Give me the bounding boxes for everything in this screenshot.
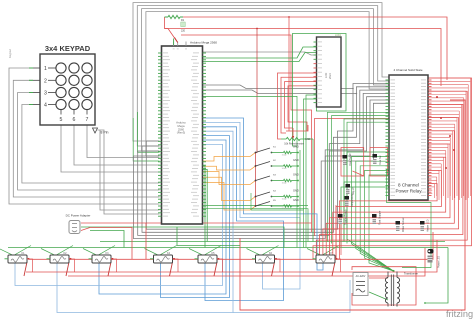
- wire orange arduino to switch S5: [203, 183, 256, 211]
- junction red R1 bus: [288, 16, 290, 18]
- wire red relay OUT stub 21: [428, 143, 448, 145]
- wire green relay pin to transformer 6: [369, 175, 394, 271]
- junction red: [453, 149, 455, 151]
- wire relay IN6 dark: [325, 100, 389, 232]
- wire red relay OUT long 1: [313, 78, 472, 259]
- svg-text:FloatingSwitch: FloatingSwitch: [344, 209, 347, 225]
- wire green relay pin to transformer 2: [351, 157, 393, 271]
- sensor float switch 2: [373, 154, 382, 165]
- wire green arduino top right: [203, 96, 298, 146]
- svg-text:fritzing: fritzing: [446, 309, 473, 319]
- wire red relay OUT stub 19: [428, 136, 450, 138]
- relay red pin label: [391, 117, 396, 120]
- transformer T1: [385, 272, 399, 307]
- wire green relay pin to transformer 5: [365, 170, 394, 271]
- junction red: [436, 96, 438, 98]
- wire red relay OUT stub 32: [428, 179, 437, 181]
- wire gray top loop 4: [146, 12, 389, 156]
- wire red into arduino top: [175, 38, 178, 43]
- svg-text:Power Relay: Power Relay: [395, 189, 422, 194]
- wire red AC to transformer: [369, 277, 388, 279]
- wire relay IN5 dark: [329, 97, 389, 230]
- svg-text:5: 5: [60, 117, 63, 123]
- wire green under switches: [251, 193, 304, 248]
- wire dark loop arduino to relay IN2: [142, 87, 389, 233]
- wire red relay OUT stub 31: [428, 176, 437, 178]
- wire gray top loop 3: [142, 9, 389, 151]
- wire green V into pump box 6: [247, 246, 279, 256]
- wire blue arduino to pump box 2: [57, 131, 233, 312]
- sensor 6: [396, 217, 405, 232]
- arduino center label: [176, 121, 186, 135]
- wire orange arduino to switch S4: [203, 177, 256, 200]
- wire red relay OUT stub 6: [428, 94, 466, 96]
- wire red relay OUT stub 16: [428, 127, 455, 129]
- svg-text:220: 220: [181, 30, 186, 33]
- wire red branch to pot frame: [288, 17, 290, 131]
- svg-text:6: 6: [73, 117, 76, 123]
- svg-text:4 Channel Solid State: 4 Channel Solid State: [393, 68, 422, 72]
- wire green relay pin to transformer 3: [356, 161, 394, 271]
- wire green V into pump box 3: [83, 246, 115, 256]
- wire keypad row 3 to arduino: [18, 93, 160, 191]
- wire red jog pump box 3: [113, 259, 117, 272]
- solenoid valve V7: [313, 252, 338, 263]
- wire red pump rail top: [29, 232, 433, 259]
- sensor 5: [372, 210, 381, 225]
- solenoid valve V3: [89, 252, 114, 263]
- wire green arduino top stub: [173, 39, 175, 46]
- wire green DC loop left: [90, 231, 124, 248]
- svg-text:8 Channel: 8 Channel: [398, 183, 419, 188]
- switches S1-S5 with pulldown resistors: [255, 145, 299, 211]
- svg-text:Arduino Mega 2560: Arduino Mega 2560: [190, 41, 217, 45]
- svg-text:GND: GND: [293, 173, 299, 177]
- wire red diag pump box 3: [108, 262, 111, 276]
- wire red jog pump box 6: [277, 259, 281, 272]
- wire red relay OUT stub 24: [428, 153, 446, 155]
- solenoid valve V4: [150, 252, 175, 263]
- solenoid valve V1: [5, 252, 30, 263]
- wire green relay mid pin 3: [344, 119, 389, 242]
- wire red comb vertical 21: [447, 144, 449, 198]
- wire green bus b: [299, 150, 301, 242]
- wire darkred switch common: [256, 29, 258, 207]
- wire red diag pump box 1: [24, 262, 27, 276]
- wire red diag pump box 2: [66, 262, 69, 276]
- wire green relay low1: [344, 182, 389, 242]
- svg-text:GND: GND: [305, 138, 311, 141]
- wire red relay OUT stub 3: [428, 84, 468, 86]
- wire green relay mid pin 2: [332, 116, 390, 244]
- wire red relay OUT stub 36: [428, 193, 432, 195]
- svg-text:1: 1: [44, 66, 47, 72]
- resistor R1: [168, 15, 180, 18]
- potentiometer RV1 10k: [286, 137, 300, 140]
- sensor drip: [346, 184, 355, 195]
- svg-text:10k Potentiometer: 10k Potentiometer: [284, 143, 304, 146]
- wire green arduino to LCD SCL: [203, 53, 317, 62]
- svg-text:10kΩ: 10kΩ: [282, 155, 287, 157]
- wire green arduino right a: [203, 205, 309, 207]
- wire red diag pump box 4: [170, 262, 173, 276]
- wire green into arduino left a: [138, 112, 160, 152]
- junction green transformer: [392, 270, 394, 272]
- wire blue arduino to pump box 5: [203, 127, 284, 301]
- wire red comb vertical 17: [452, 131, 454, 200]
- wire red jog pump box 1: [29, 259, 33, 272]
- wire red relay OUT stub 18: [428, 133, 453, 135]
- wire red LCD pin a: [278, 73, 317, 139]
- wire red relay OUT stub 20: [428, 140, 450, 142]
- svg-text:GND: GND: [293, 158, 299, 162]
- sensor 7: [420, 219, 429, 232]
- wire 8 Pin to arduino: [98, 130, 160, 214]
- wire green bottom right corner: [425, 248, 448, 304]
- solenoid valve V5: [195, 252, 220, 263]
- wire green DC branch: [177, 227, 240, 246]
- wire red relay OUT stub 7: [428, 97, 464, 99]
- wire dark loop arduino to relay IN4: [133, 93, 389, 238]
- wire red relay OUT stub 29: [428, 169, 439, 171]
- wire green arduino down 2: [203, 169, 208, 241]
- wire red diag pump box 6: [272, 262, 275, 276]
- relay red pin label: [391, 114, 396, 117]
- wire green relay mid pin 1: [327, 112, 389, 241]
- svg-text:S5: S5: [273, 200, 276, 202]
- wire red relay OUT stub 10: [428, 107, 462, 109]
- wire red relay OUT long 7: [333, 157, 446, 259]
- wire red LCD pin c: [285, 82, 317, 128]
- wire green V into pump box 5: [189, 246, 221, 256]
- svg-text:AC-220V: AC-220V: [356, 275, 366, 278]
- svg-text:Water Sensor: Water Sensor: [402, 217, 405, 232]
- wire keypad column pin 7 to arduino: [87, 125, 160, 158]
- wire red loop sensor 2: [370, 148, 388, 177]
- wire blue arduino to pump box 3: [99, 140, 226, 294]
- svg-text:Float Stopper: Float Stopper: [378, 210, 381, 225]
- wire red comb vertical 29: [438, 170, 440, 200]
- wire red branch to arduino 5V: [165, 29, 178, 42]
- IC U2 LCD 20x4 I2C: [314, 37, 342, 107]
- wire red relay OUT stub 34: [428, 186, 435, 188]
- wire green LCD down2: [304, 99, 317, 210]
- svg-text:S3: S3: [273, 175, 276, 177]
- wire red comb vertical 27: [440, 164, 442, 198]
- wire gray top loop 1: [133, 3, 389, 141]
- wire green LCD loop: [293, 34, 347, 147]
- solenoid valve V2: [47, 252, 72, 263]
- svg-text:LCD: LCD: [324, 73, 328, 78]
- wire red DC loop left: [81, 228, 132, 260]
- wire red relay GND to bus: [315, 119, 390, 237]
- wire red relay OUT stub 14: [428, 120, 457, 122]
- module K8 relay board: [386, 75, 432, 200]
- wire dark loop arduino to relay IN1: [146, 84, 389, 230]
- junction red: [445, 167, 447, 169]
- keypad 8 Pin triangle: [93, 128, 98, 133]
- wire red relay OUT stub 22: [428, 146, 448, 148]
- wire red relay OUT stub 30: [428, 173, 439, 175]
- svg-text:Temperature: Temperature: [351, 193, 354, 207]
- wire red mid: [181, 35, 312, 232]
- wire red relay OUT stub 8: [428, 100, 464, 102]
- AC source 220V: [353, 273, 368, 296]
- svg-text:S1: S1: [273, 147, 276, 149]
- svg-text:10kΩ: 10kΩ: [282, 183, 287, 185]
- wire red R1 left branch: [165, 17, 442, 86]
- wire red relay OUT stub 1: [428, 77, 471, 79]
- wire green bus a: [296, 146, 298, 248]
- wire keypad row 4 to arduino: [22, 105, 160, 184]
- junction red: [440, 117, 442, 119]
- wire red relay OUT long 2: [316, 91, 467, 259]
- wire red relay OUT stub 9: [428, 103, 462, 105]
- wire red comb vertical 3: [467, 85, 469, 198]
- svg-text:10kΩ: 10kΩ: [282, 168, 287, 170]
- wire red comb vertical 19: [449, 137, 451, 196]
- wire red pump rail2: [68, 248, 425, 276]
- svg-text:GND: GND: [293, 189, 299, 193]
- wire relay IN7 dark: [321, 103, 389, 235]
- svg-text:S2: S2: [273, 160, 276, 162]
- wire red relay OUT stub 4: [428, 87, 468, 89]
- wire red relay OUT stub 2: [428, 80, 471, 82]
- wire green relay mid pin 4: [347, 122, 389, 243]
- wire red relay OUT stub 27: [428, 163, 441, 165]
- wire red relay OUT long 3: [320, 104, 463, 259]
- svg-text:(Rev3): (Rev3): [177, 131, 185, 135]
- wire red relay OUT stub 35: [428, 189, 432, 191]
- svg-text:LCD1: LCD1: [335, 34, 342, 37]
- svg-text:Power LED: Power LED: [438, 256, 441, 268]
- wire red comb vertical 31: [436, 177, 438, 196]
- sensor 4: [338, 209, 347, 225]
- svg-text:2: 2: [44, 78, 47, 84]
- svg-text:20x4: 20x4: [328, 73, 332, 79]
- wire red comb vertical 15: [454, 124, 456, 198]
- svg-text:S4: S4: [273, 191, 276, 193]
- wire red comb vertical 11: [458, 111, 460, 200]
- wire red jog pump box 5: [219, 259, 223, 272]
- wire red riser a: [335, 205, 337, 259]
- wire red comb vertical 25: [443, 157, 445, 196]
- wire red relay OUT stub 11: [428, 110, 459, 112]
- svg-text:8 Pin: 8 Pin: [101, 131, 109, 135]
- svg-text:R1: R1: [181, 19, 185, 22]
- wire red LCD pin d: [288, 86, 317, 131]
- wire red DC drop: [145, 223, 147, 259]
- wire red relay OUT long 6: [330, 144, 451, 259]
- svg-text:10kΩ: 10kΩ: [282, 208, 287, 210]
- wire green V into pump box 4: [145, 246, 177, 256]
- svg-text:GND: GND: [293, 198, 299, 202]
- wire green into arduino left b: [133, 118, 159, 161]
- wire red comb vertical 9: [461, 104, 463, 198]
- wire red relay OUT stub 26: [428, 160, 444, 162]
- wire gray top loop 2: [137, 6, 389, 146]
- wire orange arduino to switch S2: [203, 166, 256, 170]
- wire red relay OUT stub 33: [428, 183, 435, 185]
- junction green br: [424, 302, 426, 304]
- IC U1 Arduino Mega 2560: [158, 42, 206, 225]
- keypad KP1 3x4: [29, 54, 95, 125]
- svg-text:3x4 KEYPAD: 3x4 KEYPAD: [45, 44, 91, 53]
- wire green rail upper: [100, 241, 445, 243]
- wire red loop sensor 1: [341, 148, 364, 177]
- wire red comb vertical 33: [434, 184, 436, 198]
- wire blue arduino to pump box 4: [161, 136, 230, 298]
- wire blue arduino to pump box 6: [203, 122, 301, 289]
- wire red diag pump box 5: [214, 262, 217, 276]
- junction red: [449, 135, 451, 137]
- wire keypad row 2 to arduino: [13, 80, 159, 197]
- wire red jog pump box 4: [175, 259, 179, 272]
- wire green rail lower: [8, 247, 448, 249]
- wire red sensor diag: [353, 171, 364, 176]
- wire red DC adapter: [81, 222, 312, 224]
- wire orange arduino to switch S3: [203, 172, 256, 185]
- wire red comb vertical 13: [456, 118, 458, 196]
- wire green DC adapter: [81, 227, 284, 248]
- wire red relay OUT stub 13: [428, 117, 457, 119]
- wire green arduino down 1: [203, 166, 206, 248]
- wire red relay OUT stub 15: [428, 123, 455, 125]
- wire blue arduino to pump box 7: [203, 118, 324, 270]
- wire red relay OUT stub 17: [428, 130, 453, 132]
- wire red comb vertical 7: [463, 98, 465, 196]
- wire red outer loop: [240, 100, 465, 310]
- potentiometer red frame: [286, 125, 308, 131]
- wire red from R1 to relay bus: [183, 17, 447, 80]
- svg-text:Keypad: Keypad: [8, 49, 12, 58]
- junction red switch common: [256, 28, 258, 30]
- wire red transformer loop: [352, 267, 416, 305]
- wire red relay OUT stub 5: [428, 90, 466, 92]
- wire red LCD pin b: [281, 77, 317, 133]
- svg-text:Float Switch: Float Switch: [349, 152, 352, 166]
- wire red relay OUT long 8: [336, 170, 441, 259]
- svg-text:Float Sw: Float Sw: [379, 155, 382, 165]
- wire blue arduino to pump box 1: [15, 144, 223, 285]
- wire red relay OUT long 9: [339, 184, 437, 260]
- wire red relay OUT long 5: [326, 131, 454, 259]
- wire orange arduino to switch S1: [203, 153, 256, 162]
- wire arduino gray h1: [203, 52, 317, 55]
- wire red comb vertical 23: [445, 151, 447, 200]
- wire keypad aux 1: [100, 130, 160, 210]
- wire arduino D21 gray: [203, 85, 354, 89]
- wire red relay OUT stub 23: [428, 150, 446, 152]
- wire keypad row 1 to arduino: [9, 68, 160, 204]
- polarized capacitor C1: [428, 249, 434, 254]
- wire red comb vertical 1: [470, 78, 472, 196]
- svg-text:10kΩ: 10kΩ: [282, 199, 287, 201]
- wire arduino D20 gray: [203, 90, 357, 94]
- wire green relay low2: [341, 187, 389, 248]
- svg-text:Heater LED: Heater LED: [426, 219, 429, 232]
- wire green arduino right b: [203, 209, 309, 242]
- wire red jog pump box 2: [71, 259, 75, 272]
- wire red pump rail: [26, 240, 437, 272]
- svg-text:DC Power Adapter: DC Power Adapter: [66, 214, 91, 218]
- wire red relay OUT stub 25: [428, 156, 444, 158]
- wire red relay OUT stub 28: [428, 166, 441, 168]
- svg-text:4: 4: [44, 103, 47, 109]
- sensor temp: [345, 193, 354, 207]
- wire red comb vertical 5: [465, 91, 467, 200]
- relay red pin label: [391, 111, 396, 114]
- wire keypad column pin 6 to arduino: [74, 125, 160, 165]
- wire red riser b: [340, 210, 342, 255]
- wire green relay pin to transformer 1: [347, 152, 394, 271]
- wire green relay pin to transformer 4: [360, 166, 393, 271]
- wire blue bottom rail extension: [233, 280, 350, 313]
- wire green relay wrap: [387, 169, 432, 267]
- wire red jog pump box 7: [337, 259, 341, 272]
- wire red relay OUT stub 12: [428, 113, 459, 115]
- relay red pin label: [391, 121, 396, 124]
- solenoid valve V6: [252, 252, 277, 263]
- DC power adapter J1: [69, 221, 80, 234]
- wire green AC to transformer: [369, 292, 388, 300]
- wire green transformer sec: [396, 305, 398, 307]
- wire dark loop arduino to relay IN3: [138, 90, 389, 235]
- svg-text:Transformer: Transformer: [404, 272, 418, 276]
- svg-text:7: 7: [86, 117, 89, 123]
- wire green LCD down: [306, 95, 317, 248]
- sensor float switch 1: [343, 152, 352, 166]
- wire keypad column pin 5 to arduino: [61, 125, 160, 172]
- wire green V into pump box 7: [307, 246, 339, 256]
- wire green V into pump box 2: [41, 246, 73, 256]
- svg-text:3: 3: [44, 91, 47, 97]
- wire green V into pump box 1: [0, 246, 31, 256]
- wire green arduino to LCD SDA: [203, 47, 317, 58]
- wire red relay OUT long 4: [323, 118, 459, 260]
- wire red diag pump box 7: [332, 262, 335, 276]
